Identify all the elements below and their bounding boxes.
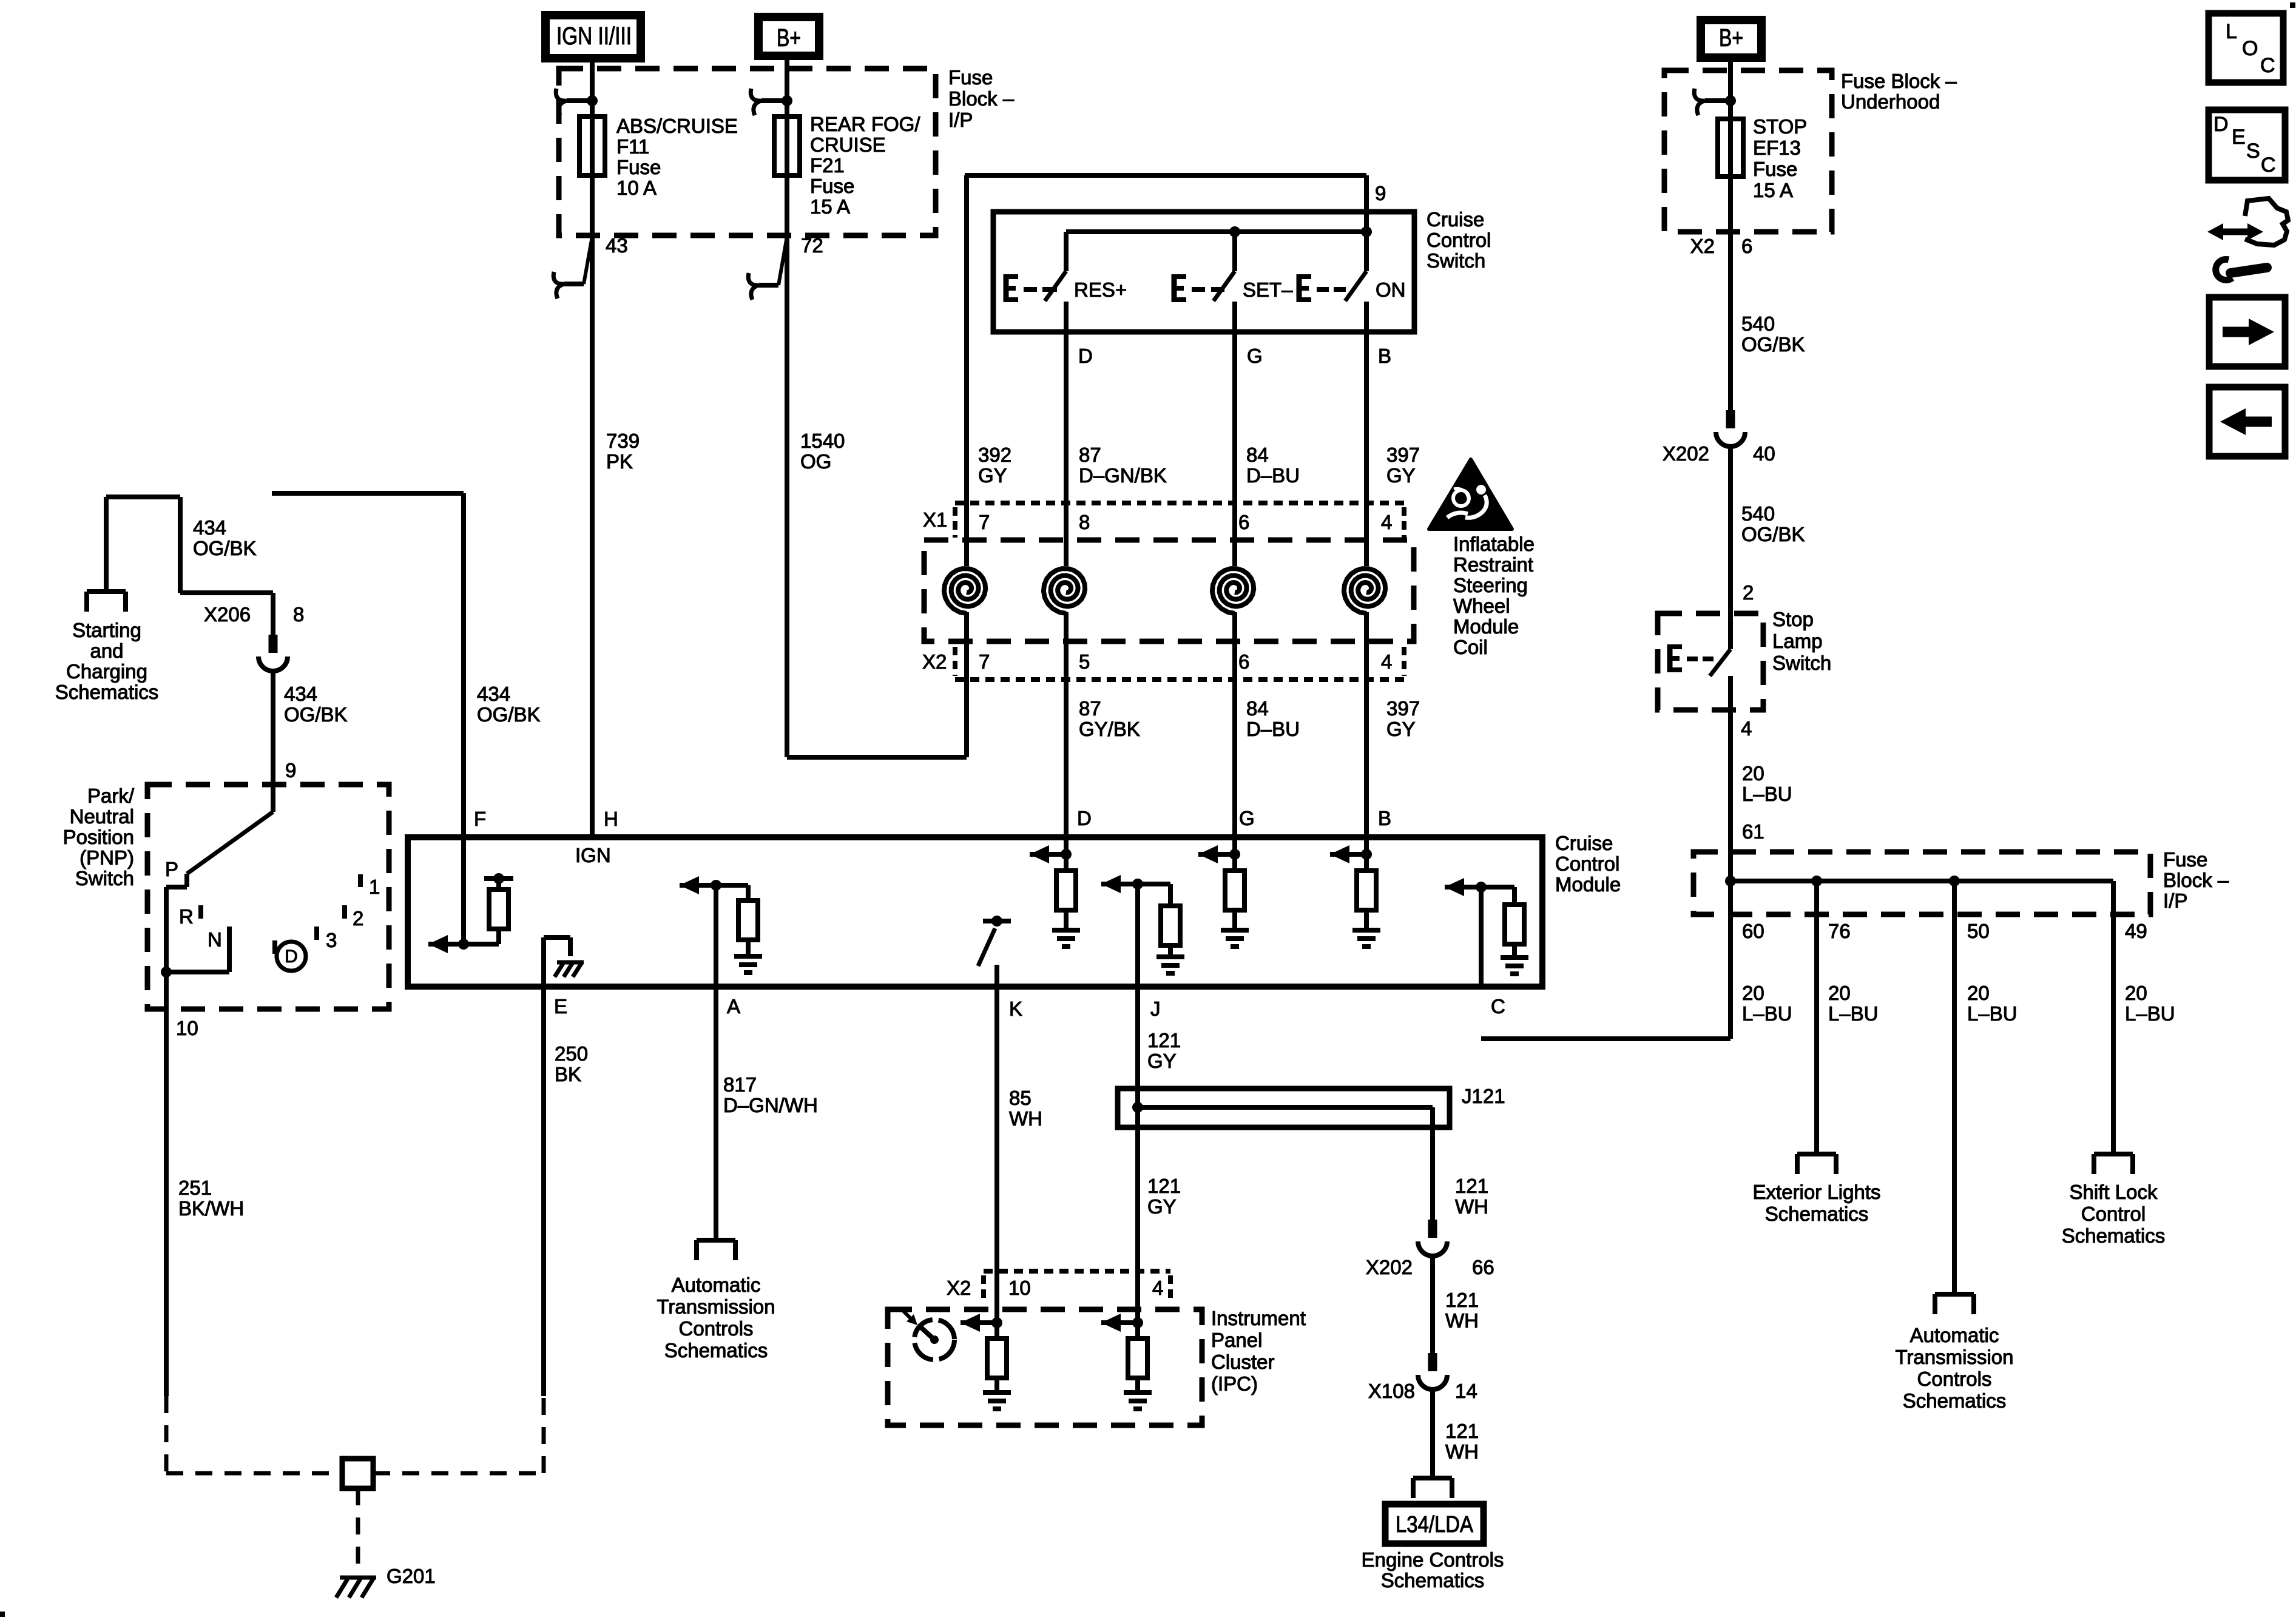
svg-text:121: 121	[1147, 1175, 1181, 1197]
svg-text:G: G	[1239, 807, 1255, 829]
fuse EF13 clip	[1725, 95, 1736, 106]
fuse F11 clip	[587, 95, 598, 106]
svg-text:WH: WH	[1455, 1195, 1488, 1218]
module B input circuit	[1364, 837, 1369, 871]
svg-text:P: P	[165, 858, 178, 880]
svg-text:10 A: 10 A	[616, 177, 657, 199]
svg-text:20: 20	[1828, 982, 1851, 1004]
svg-text:Shift Lock: Shift Lock	[2070, 1181, 2158, 1203]
fuse block underhood dashed box	[1664, 70, 1832, 232]
svg-text:397: 397	[1386, 444, 1420, 466]
wire 250 BK	[541, 987, 546, 1396]
svg-text:Automatic: Automatic	[1910, 1324, 1999, 1346]
connector X2 row (coil)	[955, 677, 1404, 682]
svg-text:Fuse Block –: Fuse Block –	[1841, 70, 1957, 92]
fuse F11 ABS/CRUISE 10A	[579, 116, 605, 175]
page mark	[2290, 2, 2295, 8]
svg-text:X1: X1	[923, 508, 947, 531]
svg-text:IGN: IGN	[575, 844, 611, 866]
svg-text:76: 76	[1828, 920, 1851, 942]
svg-text:434: 434	[284, 683, 317, 705]
svg-text:Fuse: Fuse	[948, 66, 993, 89]
coil L3	[1212, 569, 1254, 613]
svg-text:X202: X202	[1663, 442, 1709, 465]
svg-text:61: 61	[1742, 820, 1764, 843]
svg-text:D: D	[1078, 345, 1093, 367]
svg-text:4: 4	[1741, 717, 1752, 740]
svg-text:Underhood: Underhood	[1841, 90, 1940, 113]
svg-text:L34/LDA: L34/LDA	[1396, 1512, 1474, 1538]
contact N tick	[227, 927, 232, 972]
cruise control module box	[408, 837, 1542, 987]
svg-text:Fuse: Fuse	[2163, 848, 2207, 871]
connector X202 (66)	[1428, 1220, 1437, 1238]
svg-text:Block –: Block –	[2163, 869, 2229, 891]
svg-text:OG: OG	[800, 450, 831, 473]
svg-text:66: 66	[1472, 1256, 1494, 1278]
svg-text:K: K	[1009, 998, 1022, 1020]
page mark bottom-left	[0, 1612, 5, 1617]
svg-text:R: R	[179, 905, 194, 928]
svg-text:D–GN/WH: D–GN/WH	[723, 1094, 818, 1116]
svg-text:C: C	[2260, 54, 2275, 77]
svg-text:5: 5	[1079, 650, 1090, 673]
wire 20 L-BU to fuse block	[1728, 710, 1733, 881]
wire B+ to stop lamp switch (540 OG/BK)	[1728, 58, 1733, 410]
svg-text:251: 251	[178, 1176, 212, 1199]
connector stub 43	[584, 237, 592, 284]
svg-text:X2: X2	[947, 1277, 971, 1299]
svg-text:Switch: Switch	[1772, 652, 1831, 674]
IPC pin 10 circuit	[991, 1317, 1002, 1328]
stop lamp switch blade	[1728, 613, 1733, 649]
svg-text:6: 6	[1238, 650, 1249, 673]
svg-text:Control: Control	[2081, 1203, 2146, 1225]
svg-text:Lamp: Lamp	[1772, 630, 1823, 652]
wire 85 WH	[994, 987, 999, 1323]
svg-text:20: 20	[1967, 982, 1990, 1004]
wire down to X206	[271, 593, 275, 635]
power label B+ (underhood)	[1701, 20, 1761, 58]
svg-text:EF13: EF13	[1753, 137, 1801, 159]
svg-text:84: 84	[1246, 697, 1269, 720]
svg-text:A: A	[727, 995, 740, 1018]
svg-text:Stop: Stop	[1772, 608, 1814, 630]
svg-text:ON: ON	[1376, 279, 1406, 301]
svg-text:Fuse: Fuse	[1753, 158, 1797, 180]
svg-text:434: 434	[477, 683, 510, 705]
off-page stub shift lock	[2094, 1152, 2133, 1156]
svg-text:84: 84	[1246, 444, 1269, 466]
svg-text:Schematics: Schematics	[1903, 1389, 2007, 1412]
svg-text:6: 6	[1238, 511, 1249, 533]
wire 434 OG/BK loop	[104, 497, 109, 592]
svg-text:X2: X2	[1690, 235, 1715, 257]
connector X1 row	[955, 501, 1404, 505]
IPC pin 4 circuit	[1132, 1317, 1143, 1328]
instrument panel cluster dashed box	[888, 1309, 1202, 1425]
svg-text:15 A: 15 A	[1753, 179, 1793, 201]
svg-text:739: 739	[606, 430, 640, 452]
svg-text:OG/BK: OG/BK	[284, 703, 348, 726]
icon arrow next	[2209, 297, 2285, 366]
svg-text:Automatic: Automatic	[672, 1274, 761, 1296]
module E ground circuit	[541, 937, 546, 987]
svg-text:WH: WH	[1445, 1309, 1479, 1332]
svg-text:392: 392	[978, 444, 1011, 466]
svg-text:G201: G201	[387, 1565, 436, 1587]
svg-text:Schematics: Schematics	[1765, 1203, 1869, 1225]
svg-text:1: 1	[369, 876, 380, 898]
svg-text:GY: GY	[1147, 1050, 1177, 1072]
svg-text:Controls: Controls	[679, 1317, 754, 1340]
svg-text:Charging: Charging	[66, 660, 147, 683]
off-page stub exterior lights	[1797, 1152, 1836, 1156]
svg-text:Module: Module	[1555, 873, 1621, 896]
power label IGN II/III	[545, 15, 641, 58]
wire 1540 OG to coil (corner)	[787, 755, 967, 760]
internal feed wire (terminal 9 bus)	[1066, 229, 1366, 234]
splice bus inside fuse block	[1730, 879, 2113, 883]
svg-text:250: 250	[555, 1042, 588, 1065]
svg-text:RES+: RES+	[1074, 279, 1127, 301]
svg-text:D: D	[2213, 113, 2229, 136]
wire 121 GY	[1135, 987, 1140, 1323]
svg-text:X108: X108	[1368, 1380, 1415, 1402]
svg-text:L: L	[2226, 20, 2237, 43]
svg-text:121: 121	[1147, 1029, 1181, 1052]
svg-text:Coil: Coil	[1453, 636, 1488, 658]
svg-text:10: 10	[1008, 1277, 1031, 1299]
svg-text:Schematics: Schematics	[664, 1339, 768, 1362]
svg-text:Cruise: Cruise	[1427, 208, 1484, 231]
svg-text:OG/BK: OG/BK	[193, 537, 257, 559]
svg-text:817: 817	[723, 1073, 757, 1096]
wire switch B to module B (397)	[1364, 332, 1369, 566]
svg-text:6: 6	[1741, 235, 1752, 257]
svg-text:GY: GY	[1147, 1195, 1177, 1218]
power label B+ (I/P fuse block)	[758, 17, 819, 56]
svg-text:121: 121	[1445, 1289, 1479, 1311]
svg-text:Starting: Starting	[72, 619, 141, 641]
off-page stub engine controls	[1413, 1476, 1452, 1480]
svg-text:D–GN/BK: D–GN/BK	[1079, 464, 1167, 487]
svg-text:Control: Control	[1427, 229, 1491, 251]
dashed stub to G201	[356, 1488, 360, 1568]
svg-text:Park/: Park/	[87, 785, 135, 807]
PNP switch blade (P position)	[187, 812, 273, 874]
svg-text:WH: WH	[1009, 1107, 1042, 1130]
svg-text:J121: J121	[1462, 1085, 1505, 1107]
svg-text:9: 9	[285, 759, 296, 781]
svg-text:X202: X202	[1366, 1256, 1413, 1278]
svg-text:14: 14	[1455, 1380, 1477, 1402]
inflatable restraint steering wheel module coil dashed box	[924, 540, 1414, 641]
svg-text:Neutral: Neutral	[70, 805, 134, 828]
off-page stub Automatic Transmission (left)	[697, 1238, 735, 1243]
svg-text:85: 85	[1009, 1087, 1032, 1109]
svg-text:BK/WH: BK/WH	[178, 1197, 244, 1220]
svg-text:Exterior Lights: Exterior Lights	[1753, 1181, 1881, 1203]
node 50	[1949, 876, 1960, 886]
module J output circuit	[1135, 884, 1140, 987]
speedometer icon	[914, 1320, 954, 1360]
contact 1 tick	[358, 874, 363, 887]
svg-text:OG/BK: OG/BK	[1741, 333, 1805, 356]
cruise control switch box	[993, 212, 1414, 332]
module K switch circuit	[994, 965, 999, 987]
svg-text:2: 2	[1743, 581, 1754, 604]
icon arrow back	[2209, 387, 2285, 456]
svg-text:121: 121	[1455, 1175, 1488, 1197]
off-page stub Starting and Charging	[87, 589, 126, 594]
power label L34/LDA	[1385, 1504, 1484, 1544]
svg-text:and: and	[90, 640, 123, 662]
svg-text:J: J	[1150, 998, 1161, 1020]
svg-text:D–BU: D–BU	[1246, 464, 1300, 487]
fuse F21 clip	[782, 95, 792, 106]
module D input circuit	[1064, 837, 1069, 871]
svg-text:I/P: I/P	[2163, 890, 2187, 912]
fuse block I/P dashed box (right)	[1693, 852, 2150, 914]
svg-text:Schematics: Schematics	[2062, 1224, 2166, 1247]
svg-text:REAR FOG/: REAR FOG/	[810, 113, 920, 135]
svg-text:Inflatable: Inflatable	[1453, 533, 1535, 555]
node ON feed	[1361, 226, 1372, 237]
svg-text:B+: B+	[777, 24, 801, 52]
svg-text:Controls: Controls	[1917, 1368, 1992, 1390]
svg-text:8: 8	[293, 603, 304, 626]
wire 49 to shift lock (20 L-BU)	[2111, 881, 2116, 1154]
svg-text:(PNP): (PNP)	[79, 846, 134, 869]
icon DESC box	[2209, 110, 2285, 180]
wire 60 to module C (20 L-BU)	[1728, 881, 1733, 1039]
svg-text:B: B	[1378, 345, 1391, 367]
svg-text:Transmission: Transmission	[657, 1295, 775, 1318]
svg-text:L–BU: L–BU	[1967, 1002, 2017, 1025]
wire 434 OG/BK to PNP pin 9	[271, 671, 275, 812]
svg-text:Switch: Switch	[75, 867, 134, 890]
wire 121 WH to X202	[1430, 1127, 1435, 1220]
svg-text:Steering: Steering	[1453, 574, 1528, 596]
svg-text:I/P: I/P	[948, 109, 973, 131]
svg-text:E: E	[2232, 126, 2246, 149]
svg-text:SET–: SET–	[1243, 279, 1293, 301]
coil L2	[1044, 569, 1085, 613]
svg-text:Position: Position	[63, 826, 134, 848]
wire 392 GY up through coil	[964, 612, 969, 757]
fuse F21 REAR FOG/CRUISE 15A	[774, 116, 800, 175]
svg-text:40: 40	[1753, 442, 1775, 465]
svg-text:X2: X2	[922, 650, 947, 673]
svg-text:Cruise: Cruise	[1555, 832, 1613, 854]
svg-text:Fuse: Fuse	[616, 156, 661, 178]
ground G201	[340, 1576, 376, 1580]
svg-text:87: 87	[1079, 444, 1101, 466]
contact R tick	[198, 905, 203, 919]
svg-text:O: O	[2242, 37, 2258, 60]
svg-text:F: F	[474, 808, 486, 830]
svg-text:(IPC): (IPC)	[1211, 1372, 1258, 1395]
svg-text:F21: F21	[810, 154, 845, 177]
svg-text:GY: GY	[1386, 464, 1416, 487]
svg-text:Restraint: Restraint	[1453, 553, 1533, 576]
fuse block I/P dashed box (top left)	[559, 69, 936, 235]
svg-text:Wheel: Wheel	[1453, 595, 1510, 617]
node PNP output	[161, 967, 172, 977]
svg-text:540: 540	[1741, 312, 1775, 335]
svg-text:Module: Module	[1453, 615, 1519, 638]
wire 434 OG/BK to module pin F	[461, 493, 466, 837]
wire 50 to AT controls (20 L-BU)	[1952, 881, 1957, 1294]
svg-text:OG/BK: OG/BK	[477, 703, 541, 726]
svg-text:GY/BK: GY/BK	[1079, 718, 1140, 740]
svg-text:IGN II/III: IGN II/III	[556, 22, 632, 50]
svg-text:87: 87	[1079, 697, 1101, 720]
svg-text:Instrument: Instrument	[1211, 1307, 1306, 1329]
svg-text:B+: B+	[1719, 24, 1743, 52]
svg-text:9: 9	[1375, 182, 1386, 204]
svg-text:1540: 1540	[800, 430, 845, 452]
svg-text:WH: WH	[1445, 1440, 1479, 1463]
wire 251 BK/WH	[164, 972, 169, 1396]
svg-text:397: 397	[1386, 697, 1420, 720]
node SET- feed	[1229, 226, 1240, 237]
svg-text:8: 8	[1079, 511, 1090, 533]
svg-text:43: 43	[606, 234, 628, 257]
svg-text:7: 7	[979, 650, 990, 673]
module G input circuit	[1232, 837, 1237, 871]
svg-text:Schematics: Schematics	[55, 681, 159, 703]
svg-text:Switch: Switch	[1427, 249, 1485, 272]
wire 121 WH to L34/LDA	[1430, 1389, 1435, 1478]
svg-text:STOP: STOP	[1753, 115, 1807, 138]
module C output circuit	[1479, 887, 1484, 987]
svg-text:4: 4	[1381, 650, 1392, 673]
connector stub 72	[778, 237, 787, 285]
svg-text:D–BU: D–BU	[1246, 718, 1300, 740]
svg-text:F11: F11	[616, 135, 649, 158]
svg-text:N: N	[208, 928, 222, 951]
splice box (ground distribution)	[342, 1459, 373, 1488]
module A output circuit	[714, 885, 718, 987]
wire switch D to module D (87)	[1064, 332, 1069, 566]
switch RES+	[1064, 232, 1069, 271]
svg-text:121: 121	[1445, 1420, 1479, 1442]
switch SET-	[1232, 232, 1237, 271]
module F input circuit	[461, 837, 466, 944]
svg-text:Cluster: Cluster	[1211, 1351, 1275, 1373]
contact 2 tick	[342, 905, 347, 919]
off-page stub Automatic Transmission (right)	[1935, 1292, 1974, 1297]
svg-text:C: C	[2261, 154, 2276, 177]
wire B+ through fuse F21 (1540 OG)	[785, 56, 789, 757]
svg-text:Block –: Block –	[948, 87, 1015, 110]
svg-text:7: 7	[979, 511, 990, 533]
dashed ground run to G201	[164, 1396, 169, 1473]
svg-text:3: 3	[326, 929, 337, 951]
svg-text:Panel: Panel	[1211, 1329, 1262, 1351]
svg-text:20: 20	[1742, 982, 1764, 1004]
svg-text:OG/BK: OG/BK	[1741, 523, 1805, 545]
svg-text:S: S	[2246, 140, 2260, 163]
svg-text:GY: GY	[1386, 718, 1416, 740]
svg-text:E: E	[554, 995, 567, 1018]
svg-text:L–BU: L–BU	[1742, 783, 1792, 805]
svg-text:PK: PK	[606, 450, 633, 473]
svg-text:X206: X206	[204, 603, 251, 626]
park/neutral position switch dashed box	[147, 785, 389, 1009]
svg-text:L–BU: L–BU	[1742, 1002, 1792, 1025]
svg-text:72: 72	[801, 234, 823, 257]
connector X108 (14)	[1428, 1353, 1437, 1371]
node 60	[1725, 876, 1736, 886]
svg-text:4: 4	[1152, 1277, 1163, 1299]
svg-text:B: B	[1378, 807, 1391, 829]
contact D circled	[272, 940, 277, 954]
icon service/diagnostic (car + wrench)	[2216, 229, 2255, 235]
contact 3 tick	[314, 927, 319, 940]
svg-text:BK: BK	[555, 1063, 581, 1085]
svg-text:D: D	[285, 947, 298, 967]
svg-text:Engine Controls: Engine Controls	[1362, 1548, 1504, 1571]
node 76	[1811, 876, 1822, 886]
coil L1	[944, 569, 985, 613]
stop lamp switch dashed box	[1658, 613, 1763, 710]
svg-text:4: 4	[1381, 511, 1392, 533]
wire IGN II/III to module pin H (739 PK)	[590, 58, 595, 837]
svg-text:C: C	[1491, 995, 1505, 1018]
svg-text:Fuse: Fuse	[810, 175, 854, 197]
svg-text:CRUISE: CRUISE	[810, 133, 886, 156]
svg-text:GY: GY	[978, 464, 1007, 487]
svg-text:15 A: 15 A	[810, 195, 850, 218]
svg-text:Transmission: Transmission	[1896, 1346, 2014, 1368]
svg-text:ABS/CRUISE: ABS/CRUISE	[616, 115, 738, 137]
svg-text:D: D	[1077, 807, 1092, 829]
svg-text:434: 434	[193, 516, 226, 539]
svg-text:Schematics: Schematics	[1381, 1569, 1485, 1592]
icon LOC box	[2209, 13, 2283, 83]
wire 76 to exterior lights (20 L-BU)	[1814, 881, 1819, 1154]
connector X206	[269, 635, 278, 653]
svg-text:10: 10	[176, 1017, 198, 1039]
svg-text:L–BU: L–BU	[1828, 1002, 1879, 1025]
svg-text:20: 20	[2125, 982, 2147, 1004]
svg-text:2: 2	[353, 907, 363, 930]
svg-text:49: 49	[2125, 920, 2147, 942]
wire 121 WH to X108	[1430, 1256, 1435, 1353]
wire 817 D-GN/WH to AT controls	[714, 987, 718, 1240]
wire over to switch terminal 9	[965, 173, 1366, 178]
SIR warning triangle icon	[1429, 459, 1512, 529]
connector X2 row (IPC)	[984, 1269, 1170, 1274]
connector X202 (40)	[1726, 410, 1735, 428]
svg-text:540: 540	[1741, 502, 1775, 525]
switch ON	[1364, 232, 1369, 271]
coil L4	[1344, 569, 1385, 613]
splice pack J121	[1118, 1089, 1450, 1127]
svg-text:H: H	[604, 808, 618, 830]
svg-text:G: G	[1247, 345, 1263, 367]
svg-text:50: 50	[1967, 920, 1990, 942]
fuse STOP EF13 15A	[1718, 119, 1743, 177]
svg-text:Control: Control	[1555, 852, 1619, 875]
wire switch G to module G (84)	[1232, 332, 1237, 566]
svg-text:20: 20	[1742, 762, 1764, 785]
svg-text:L–BU: L–BU	[2125, 1002, 2175, 1025]
svg-text:60: 60	[1742, 920, 1764, 942]
